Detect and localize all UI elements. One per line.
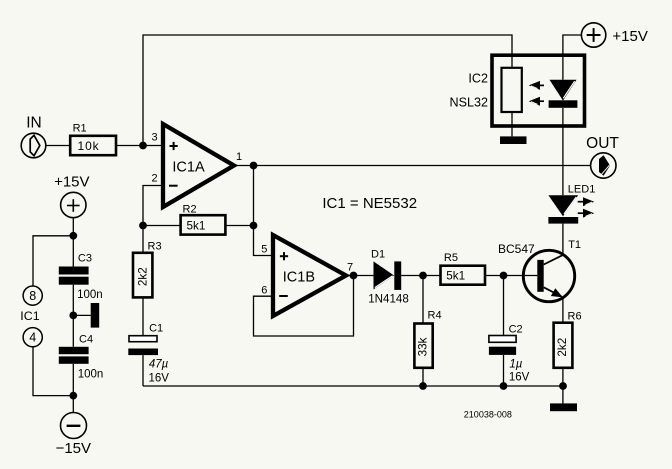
wire lower left node to -15V supply (72, 396, 74, 413)
capacitor C2 (489, 336, 516, 355)
wire +15V supply to left rail node (72, 218, 74, 236)
svg-text:10k: 10k (78, 139, 100, 153)
node A junction R1 pin3 feedback (139, 142, 147, 150)
wire C1 to bottom rail (142, 355, 144, 386)
opto-coupler IC2 box (492, 55, 585, 126)
node +15V rail junction (69, 232, 77, 240)
svg-text:IC1: IC1 (20, 309, 39, 323)
wire node B to pin 5 (254, 226, 274, 256)
svg-text:R5: R5 (444, 252, 458, 264)
svg-text:IC1B: IC1B (283, 270, 315, 286)
svg-text:5k1: 5k1 (187, 219, 206, 232)
svg-text:R3: R3 (148, 241, 162, 253)
svg-text:T1: T1 (568, 239, 581, 251)
wire feedback from node A up and across to IC2 photoresistor (143, 35, 512, 146)
wire C3 to C4 through mid node (72, 285, 74, 347)
wire output node to OUT (254, 165, 591, 167)
node R4 bottom junction (419, 382, 427, 390)
svg-text:C1: C1 (149, 322, 163, 334)
resistor R6 (554, 323, 573, 368)
wire left rail node to pin 8 circle (33, 236, 73, 286)
svg-text:NSL32: NSL32 (449, 96, 488, 110)
photoresistor inside IC2 (502, 68, 522, 112)
wire output node down to node B (253, 166, 255, 226)
diode D1 (374, 261, 402, 290)
wire IN to R1 (46, 145, 70, 147)
wire pin 2 to R2 left node (143, 186, 163, 226)
resistor R4 (414, 324, 432, 368)
wire C2 to bottom rail (503, 355, 505, 386)
wire pin 7 to D1 (346, 275, 374, 277)
svg-text:8: 8 (29, 289, 36, 303)
op-amp U1 IC1A (163, 124, 234, 207)
svg-text:33k: 33k (417, 337, 430, 356)
svg-text:R2: R2 (183, 203, 197, 215)
light arrows inside IC2 (529, 81, 544, 106)
wire pin 1 to output node (234, 165, 254, 167)
resistor R2 (181, 215, 226, 234)
pin 4 circle of IC1 (23, 328, 42, 347)
svg-text:5: 5 (261, 243, 267, 255)
wire pin 4 circle to lower left node (33, 347, 73, 396)
svg-text:R6: R6 (568, 311, 582, 323)
svg-text:R4: R4 (428, 309, 442, 321)
supply +15V left (61, 192, 86, 217)
svg-text:IC1A: IC1A (172, 160, 205, 176)
supply +15V top right (581, 23, 605, 47)
svg-text:3: 3 (151, 132, 157, 144)
node C2 bottom junction (500, 382, 508, 390)
svg-text:47µ: 47µ (149, 359, 169, 371)
wire R3 to C1 (142, 297, 144, 335)
connector OUT (591, 153, 616, 178)
node pin1 output junction (250, 162, 258, 170)
chassis ground bar at C3 C4 junction (91, 303, 100, 328)
connector IN (21, 133, 46, 158)
wire node D down to C2 (503, 276, 505, 336)
wire R2 left node down to R3 (142, 226, 144, 253)
wire LED1 cathode to T1 collector (562, 224, 564, 255)
node B R2 right junction (250, 222, 258, 230)
ground below R6 (550, 403, 577, 411)
svg-text:6: 6 (261, 285, 267, 297)
wire R2 left node to R2 (143, 225, 181, 227)
wire R6 to ground (562, 368, 564, 404)
wire C4 to lower left node (72, 364, 74, 396)
op-amp U2 IC1B (273, 235, 346, 316)
LED LED1 (548, 195, 578, 223)
wire R2 to node B (225, 225, 253, 227)
wire +15V supply to IC2 LED (563, 35, 582, 80)
wire IC2 photoresistor to ground (511, 112, 513, 136)
svg-text:BC547: BC547 (498, 242, 535, 256)
svg-text:100n: 100n (77, 289, 103, 301)
resistor R5 (441, 266, 486, 285)
capacitor C4 (59, 347, 89, 364)
svg-text:2k2: 2k2 (556, 338, 569, 357)
svg-text:16V: 16V (149, 373, 170, 385)
light arrows of LED1 (578, 197, 595, 217)
node R6 ground junction (559, 382, 567, 390)
node C3 C4 mid junction (69, 312, 77, 320)
svg-text:IC2: IC2 (468, 71, 488, 85)
svg-text:−15V: −15V (56, 440, 91, 457)
svg-text:100n: 100n (78, 369, 104, 381)
wire node C to R5 (423, 275, 441, 277)
pin 8 circle of IC1 (23, 286, 42, 305)
svg-text:210038-008: 210038-008 (464, 410, 512, 420)
svg-text:5k1: 5k1 (446, 270, 465, 283)
svg-text:2k2: 2k2 (137, 267, 150, 286)
svg-text:1N4148: 1N4148 (368, 293, 409, 306)
svg-text:C3: C3 (78, 253, 92, 265)
transistor Q1 T1 (523, 250, 574, 301)
svg-text:LED1: LED1 (568, 183, 596, 195)
svg-text:1µ: 1µ (509, 359, 522, 371)
wire D1 to node C (401, 275, 423, 277)
svg-text:1: 1 (236, 151, 242, 163)
node R2 left junction (139, 222, 147, 230)
svg-text:2: 2 (151, 173, 157, 185)
ground below IC2 (500, 136, 527, 144)
svg-text:7: 7 (347, 261, 353, 273)
wire R1 to pin 3 node (116, 145, 163, 147)
svg-text:C4: C4 (79, 334, 93, 346)
wire R4 to bottom rail (422, 368, 424, 386)
wire node D to T1 base (504, 275, 538, 277)
capacitor C3 (59, 267, 89, 285)
wire node C down to R4 (422, 276, 424, 324)
capacitor C1 (128, 336, 158, 355)
svg-text:R1: R1 (73, 122, 87, 134)
svg-text:IC1 = NE5532: IC1 = NE5532 (322, 195, 417, 212)
svg-text:OUT: OUT (586, 135, 619, 152)
svg-text:D1: D1 (371, 249, 385, 261)
svg-text:+15V: +15V (54, 174, 89, 191)
svg-text:4: 4 (29, 330, 36, 344)
LED inside IC2 (549, 80, 578, 108)
node pin7 output junction (350, 272, 358, 280)
wire IC2 LED cathode down to LED1 (562, 108, 564, 195)
wire left rail node down to C3 (72, 236, 74, 267)
node -15V rail junction (69, 392, 77, 400)
svg-text:C2: C2 (509, 324, 523, 336)
wire T1 emitter to R6 (562, 298, 564, 323)
svg-text:+15V: +15V (612, 28, 647, 45)
wire pin 6 feedback loop (254, 276, 354, 337)
resistor R1 (70, 136, 116, 155)
wire R5 to node D (485, 275, 504, 277)
supply -15V (61, 413, 87, 439)
wire bottom rail (143, 385, 563, 387)
node D R5 C2 base junction (500, 272, 508, 280)
node C D1 R4 junction (419, 272, 427, 280)
svg-text:IN: IN (26, 115, 42, 132)
svg-text:16V: 16V (509, 372, 530, 384)
wire mid node stub to chassis bar (73, 314, 90, 316)
resistor R3 (133, 253, 152, 298)
